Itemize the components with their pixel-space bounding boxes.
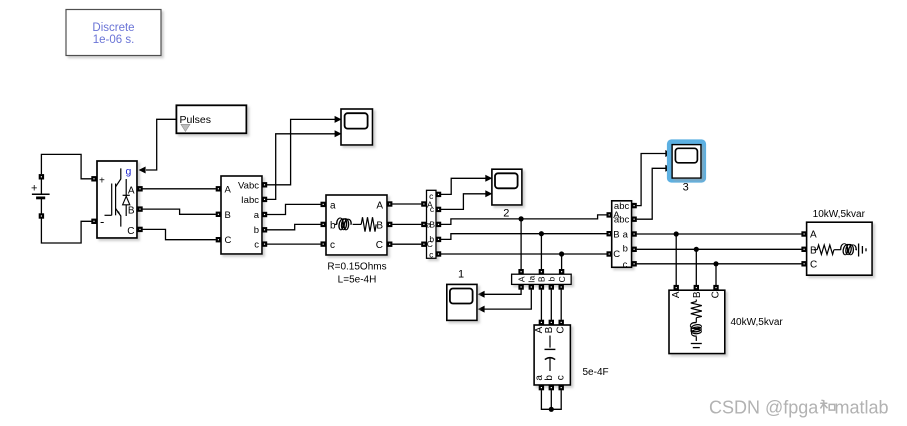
cap bank port c (559, 385, 564, 390)
bridge port - (91, 219, 96, 224)
svg-text:C: C (613, 249, 620, 260)
svg-text:B: B (376, 221, 383, 232)
wire cap bank neutral b (550, 390, 552, 409)
B1 port C (216, 237, 221, 242)
B1 port B (216, 212, 221, 217)
svg-text:Iabc: Iabc (241, 195, 259, 206)
B3 port A top (518, 269, 523, 274)
junction node neutral (549, 407, 554, 412)
wire B4 Vabc to scope3 (637, 154, 666, 206)
svg-text:a: a (623, 230, 629, 241)
RLC port B (387, 222, 392, 227)
40kW,5kvar three-phase load block (rotated) (669, 290, 725, 353)
svg-text:Ia: Ia (527, 275, 537, 282)
wire B2 Vabc to scope2 (441, 178, 486, 194)
scope block (top) (341, 109, 373, 145)
B3 port a bottom (539, 284, 544, 289)
B2 port C (421, 242, 426, 247)
10kW load port A (801, 231, 806, 236)
svg-text:+: + (31, 183, 37, 195)
svg-text:B: B (544, 326, 555, 333)
Pulses from-tag block (176, 105, 246, 133)
wire B3 c to cap bank (560, 290, 562, 320)
svg-text:40kW,5kvar: 40kW,5kvar (731, 317, 784, 328)
B2 port c (436, 251, 441, 256)
svg-text:Vabc: Vabc (238, 181, 259, 192)
junction node row a (519, 216, 524, 221)
junction node load a (674, 231, 679, 236)
wire drop a to B3 (520, 219, 522, 269)
svg-text:R=0.15Ohms: R=0.15Ohms (327, 261, 386, 272)
B4 port b (631, 247, 636, 252)
junction node row c (559, 251, 564, 256)
svg-text:A: A (376, 201, 383, 212)
B3 port Vabc bottom (518, 284, 523, 289)
wire B1 b to RLC b (267, 224, 321, 229)
svg-text:c: c (330, 240, 335, 251)
svg-text:a: a (330, 201, 336, 212)
wire row b: B4 b to load B (637, 248, 802, 250)
bridge port B (137, 206, 142, 211)
svg-text:C: C (810, 260, 817, 271)
wire RLC C to B2 C (392, 243, 421, 245)
10kW load port B (801, 247, 806, 252)
narrow three-phase V-I measurement block B2 (426, 190, 436, 259)
cap bank port C (559, 320, 564, 325)
svg-text:A: A (128, 185, 135, 196)
scope 3 selection highlight (667, 139, 706, 182)
DC source + terminal port (39, 174, 44, 179)
cap bank port a (539, 385, 544, 390)
svg-text:abc: abc (614, 214, 630, 225)
svg-text:c: c (254, 240, 259, 251)
svg-text:1: 1 (458, 269, 464, 281)
wire bridge A to B1 A (143, 188, 216, 190)
wire drop b to B3 (540, 234, 542, 270)
scope 1 block (mirrored) (447, 284, 477, 320)
wire drop c to 40kW load (715, 264, 717, 285)
svg-text:b: b (547, 277, 557, 282)
RLC port c (321, 241, 326, 246)
svg-text:B: B (225, 210, 231, 221)
wire row b: B2 b to B4 B (441, 234, 607, 240)
svg-text:L=5e-4H: L=5e-4H (338, 275, 377, 286)
wire B4 Iabc to scope3 (637, 168, 666, 219)
B3 port Iabc bottom (529, 284, 534, 289)
three-phase V-I measurement block B4 (612, 201, 632, 271)
svg-text:10kW,5kvar: 10kW,5kvar (813, 209, 866, 220)
cap bank port b (549, 385, 554, 390)
40kW load port C (713, 285, 718, 290)
wire B3 a to cap bank (540, 290, 542, 320)
wire drop a to 40kW load (675, 234, 677, 285)
svg-text:B: B (128, 206, 135, 217)
B4 port Vabc (631, 203, 636, 208)
wire DC- to bridge - (41, 219, 91, 244)
svg-text:b: b (254, 225, 259, 236)
B3 port B top (539, 269, 544, 274)
svg-text:B: B (429, 220, 435, 230)
wire B1 Vabc to scope (267, 119, 335, 184)
B1 port Vabc (262, 182, 267, 187)
svg-text:B: B (810, 245, 817, 256)
svg-text:b: b (544, 375, 555, 381)
wire B1 Iabc to scope (267, 134, 335, 200)
wire B2 Iabc to scope2 (441, 194, 486, 210)
B1 port a (262, 212, 267, 217)
svg-text:CSDN @fpga: CSDN @fpga (709, 398, 819, 418)
10kW load port C (801, 261, 806, 266)
cap bank port A (539, 320, 544, 325)
40kW load port A (674, 285, 679, 290)
wire row c: B2 c to B4 C (441, 253, 607, 255)
B4 port A (607, 212, 612, 217)
svg-text:B: B (692, 291, 703, 298)
B4 port B (607, 231, 612, 236)
B4 port C (607, 251, 612, 256)
svg-text:C: C (710, 291, 721, 298)
svg-text:c: c (429, 249, 434, 259)
RLC port C (387, 242, 392, 247)
wire B1 a to RLC a (267, 204, 321, 214)
RLC port a (321, 202, 326, 207)
40kW load port B (694, 285, 699, 290)
svg-text:C: C (427, 239, 433, 249)
bridge port C (137, 227, 142, 232)
svg-text:b: b (330, 221, 336, 232)
B2 port B (421, 222, 426, 227)
wire drop c to B3 (561, 254, 563, 269)
IGBT universal bridge block (97, 161, 137, 238)
junction node row b (539, 231, 544, 236)
three-phase capacitor bank block 5e-4F (534, 325, 570, 385)
wire RLC B to B2 B (392, 223, 421, 225)
svg-text:B: B (613, 230, 619, 241)
svg-text:matlab: matlab (835, 398, 889, 418)
wire DC+ to bridge + (41, 154, 91, 178)
B2 port A (421, 201, 426, 206)
10kW,5kvar three-phase load block (807, 222, 873, 275)
B3 port b bottom (549, 284, 554, 289)
svg-text:Discrete: Discrete (92, 22, 134, 34)
B1 port A (216, 186, 221, 191)
B2 port Vabc (436, 192, 441, 197)
B1 port Iabc (262, 197, 267, 202)
rotated three-phase V-I measurement block B3 (512, 274, 572, 284)
three-phase V-I measurement block B1 (221, 176, 262, 254)
svg-text:-: - (100, 214, 104, 229)
cap bank port B (549, 320, 554, 325)
B2 port a (436, 222, 441, 227)
svg-text:g: g (126, 166, 132, 178)
junction node load c (713, 261, 718, 266)
B3 port c bottom (559, 284, 564, 289)
wire B3 Vabc to scope1 (484, 290, 521, 295)
svg-text:C: C (557, 276, 567, 282)
powergui block "Discrete 1e-06 s." (66, 10, 161, 56)
B2 port b (436, 237, 441, 242)
scope 2 block (492, 169, 522, 205)
DC voltage source battery symbol (31, 179, 50, 213)
svg-text:A: A (671, 291, 682, 298)
svg-text:1e-06 s.: 1e-06 s. (93, 34, 135, 46)
wire Pulses to bridge g input (146, 119, 176, 170)
junction node load b (694, 247, 699, 252)
bridge port A (137, 186, 142, 191)
svg-text:A: A (516, 276, 526, 282)
svg-text:c: c (556, 375, 567, 380)
svg-text:b: b (623, 244, 628, 255)
B2 port Iabc (436, 207, 441, 212)
DC source - terminal port (39, 213, 44, 218)
wire RLC A to B2 A (392, 203, 421, 205)
B3 port C top (559, 269, 564, 274)
B4 port c (631, 261, 636, 266)
svg-text:C: C (225, 235, 232, 246)
wire B3 Iabc to scope1 (484, 290, 532, 310)
wire drop b to 40kW load (695, 249, 697, 285)
svg-text:B: B (537, 276, 547, 282)
wire cap bank neutral a (541, 390, 561, 409)
watermark CSDN @fpga和matlab (709, 398, 889, 418)
svg-text:c: c (623, 259, 628, 270)
RLC port b (321, 222, 326, 227)
B1 port b (262, 227, 267, 232)
bridge port + (91, 176, 96, 181)
wire row c: B4 c to load C (637, 263, 802, 265)
svg-text:5e-4F: 5e-4F (583, 367, 609, 378)
wire B1 c to RLC c (267, 243, 321, 245)
wire bridge B to B1 B (143, 209, 216, 214)
wire B3 b to cap bank (550, 290, 552, 320)
wire bridge C to B1 C (143, 229, 216, 239)
wire row a: B2 a to B4 A (441, 215, 607, 225)
B4 port Iabc (631, 217, 636, 222)
svg-text:C: C (556, 326, 567, 333)
B4 port a (631, 231, 636, 236)
three-phase series RLC branch block (326, 195, 387, 255)
svg-text:a: a (254, 210, 260, 221)
svg-text:C: C (376, 240, 383, 251)
RLC port A (387, 201, 392, 206)
svg-text:C: C (127, 226, 134, 237)
svg-text:2: 2 (503, 207, 509, 219)
svg-text:3: 3 (683, 182, 689, 194)
svg-text:A: A (810, 229, 817, 240)
scope 3 block (672, 145, 701, 179)
svg-text:A: A (225, 185, 232, 196)
B1 port c (262, 241, 267, 246)
wire row a: B4 a to load A (637, 233, 802, 235)
svg-text:+: + (99, 176, 105, 187)
